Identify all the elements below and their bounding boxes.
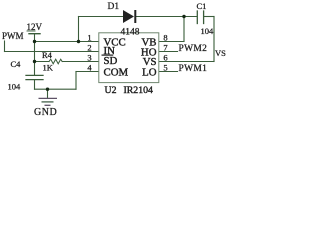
svg-text:VS: VS [215,48,226,58]
svg-text:104: 104 [8,82,22,92]
wire C4 to ground rail [34,80,36,90]
12V label underline [27,30,36,32]
svg-text:U2: U2 [105,85,117,96]
resistor R4 zigzag [49,59,62,64]
wire pin 4 vertical to ground rail [75,72,77,90]
wire pin 8 (VB) [159,41,184,43]
wire pin 6 (VS) [159,61,214,63]
wire pin 7 (HO) to PWM2 [159,51,178,53]
svg-text:7: 7 [163,43,167,53]
capacitor C4 top plate [26,74,43,76]
capacitor C4 bottom plate [26,79,43,81]
op-amp U2 IR2104 body box [99,33,159,83]
svg-text:PWM1: PWM1 [179,64,208,74]
svg-text:1K: 1K [43,63,54,73]
wire bootstrap vertical to pin 8 [183,17,185,42]
svg-text:GND: GND [34,107,57,118]
wire to diode anode [79,16,124,18]
junction node diode branch [77,40,80,43]
svg-text:SD: SD [104,55,118,67]
svg-text:IR2104: IR2104 [124,85,153,96]
junction node ground [46,88,49,91]
capacitor C1 right plate [203,11,205,24]
svg-text:C4: C4 [11,59,22,69]
junction node 12V/VCC [33,40,36,43]
svg-text:3: 3 [87,53,91,63]
ground symbol bars [39,98,58,105]
wire PWM vertical stub [4,41,6,52]
wire R4 right to pin 3 (SD) [62,61,98,63]
svg-text:5: 5 [163,63,167,73]
power 12V bar [29,33,40,35]
junction node bootstrap/pin8 [182,15,185,18]
svg-text:2: 2 [87,43,91,53]
wire VS vertical [213,17,215,62]
wire ground stub [47,89,49,98]
overline of SD / underline of IN [102,54,114,56]
wire pin 4 (COM) [76,71,99,73]
wire ground rail [35,88,77,90]
wire diode cathode to C1 [136,16,197,18]
wire diode branch vertical [78,17,80,42]
svg-text:104: 104 [201,26,215,36]
diode D1 triangle [123,10,134,23]
capacitor C1 left plate [196,11,198,24]
diode D1 cathode bar [134,10,136,23]
svg-text:1: 1 [87,33,91,43]
wire 12V vertical down to C4 [34,34,36,75]
svg-text:PWM: PWM [2,31,24,41]
svg-text:PWM2: PWM2 [179,44,208,54]
svg-text:COM: COM [104,67,129,79]
wire pin 5 (LO) to PWM1 [159,71,178,73]
svg-text:8: 8 [163,33,167,43]
svg-text:LO: LO [142,67,157,79]
svg-text:D1: D1 [108,2,120,12]
svg-text:C1: C1 [197,1,207,11]
svg-text:6: 6 [163,53,167,63]
junction node R4 branch [33,60,36,63]
wire VCC pin 1 [35,41,99,43]
wire PWM to pin 2 (IN) [5,51,99,53]
svg-text:12V: 12V [27,22,43,32]
svg-text:R4: R4 [42,50,53,60]
wire R4 left [35,61,50,63]
wire C1 right to corner [204,16,214,18]
